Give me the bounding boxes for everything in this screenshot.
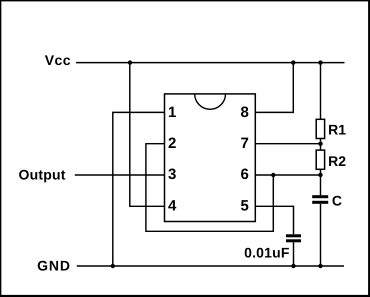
svg-text:0.01uF: 0.01uF <box>244 244 290 260</box>
svg-text:Vcc: Vcc <box>45 52 71 68</box>
capacitor C <box>312 195 328 204</box>
junction pin6 / pin2 link <box>271 173 275 177</box>
wire pin 2 to pin 6 junction <box>146 144 273 232</box>
junction Vcc / pin8 riser <box>291 60 295 64</box>
junction GND / C <box>318 264 322 268</box>
svg-text:6: 6 <box>241 166 249 183</box>
wire bypass capacitor to ground <box>293 242 295 266</box>
wire pin 8 to Vcc <box>255 63 293 113</box>
wire C bottom to ground <box>320 204 322 266</box>
wire pin 1 to ground <box>113 112 165 266</box>
wire GND rail <box>77 265 344 267</box>
junction R1/R2 node <box>318 142 322 146</box>
svg-text:R1: R1 <box>328 121 346 137</box>
svg-text:2: 2 <box>168 135 176 152</box>
wire Output to pin 3 <box>75 174 165 176</box>
svg-text:4: 4 <box>168 197 177 214</box>
junction R2/C node <box>318 173 322 177</box>
wire pin 5 to bypass capacitor <box>255 206 293 234</box>
wire Vcc to pin 4 <box>130 63 165 207</box>
wire Vcc to R1 top <box>320 63 322 120</box>
op-amp/timer U1 DIP-8 body <box>165 94 256 222</box>
junction Vcc / pin4 drop <box>111 60 323 268</box>
svg-text:Output: Output <box>19 167 66 183</box>
svg-text:8: 8 <box>241 104 249 121</box>
resistor R2 <box>316 150 324 169</box>
junction Vcc / R1 <box>318 60 322 64</box>
capacitor C2 bypass 0.01uF <box>286 234 301 242</box>
svg-text:C: C <box>332 192 342 208</box>
junction GND / pin1 <box>111 264 115 268</box>
svg-text:GND: GND <box>37 257 71 273</box>
svg-text:1: 1 <box>168 104 176 121</box>
wire R2 bottom to C top <box>320 169 322 195</box>
svg-text:R2: R2 <box>328 153 346 169</box>
junction GND / bypass cap <box>291 264 295 268</box>
wire pin 7 to R1/R2 junction <box>255 143 320 145</box>
svg-text:5: 5 <box>241 197 249 214</box>
svg-text:3: 3 <box>168 166 176 183</box>
resistor R1 <box>316 119 324 138</box>
wire Vcc rail <box>76 62 345 64</box>
wire R1 bottom to node <box>320 139 322 151</box>
svg-text:7: 7 <box>241 135 249 152</box>
wire pin 6 to R2/C junction <box>255 174 320 176</box>
